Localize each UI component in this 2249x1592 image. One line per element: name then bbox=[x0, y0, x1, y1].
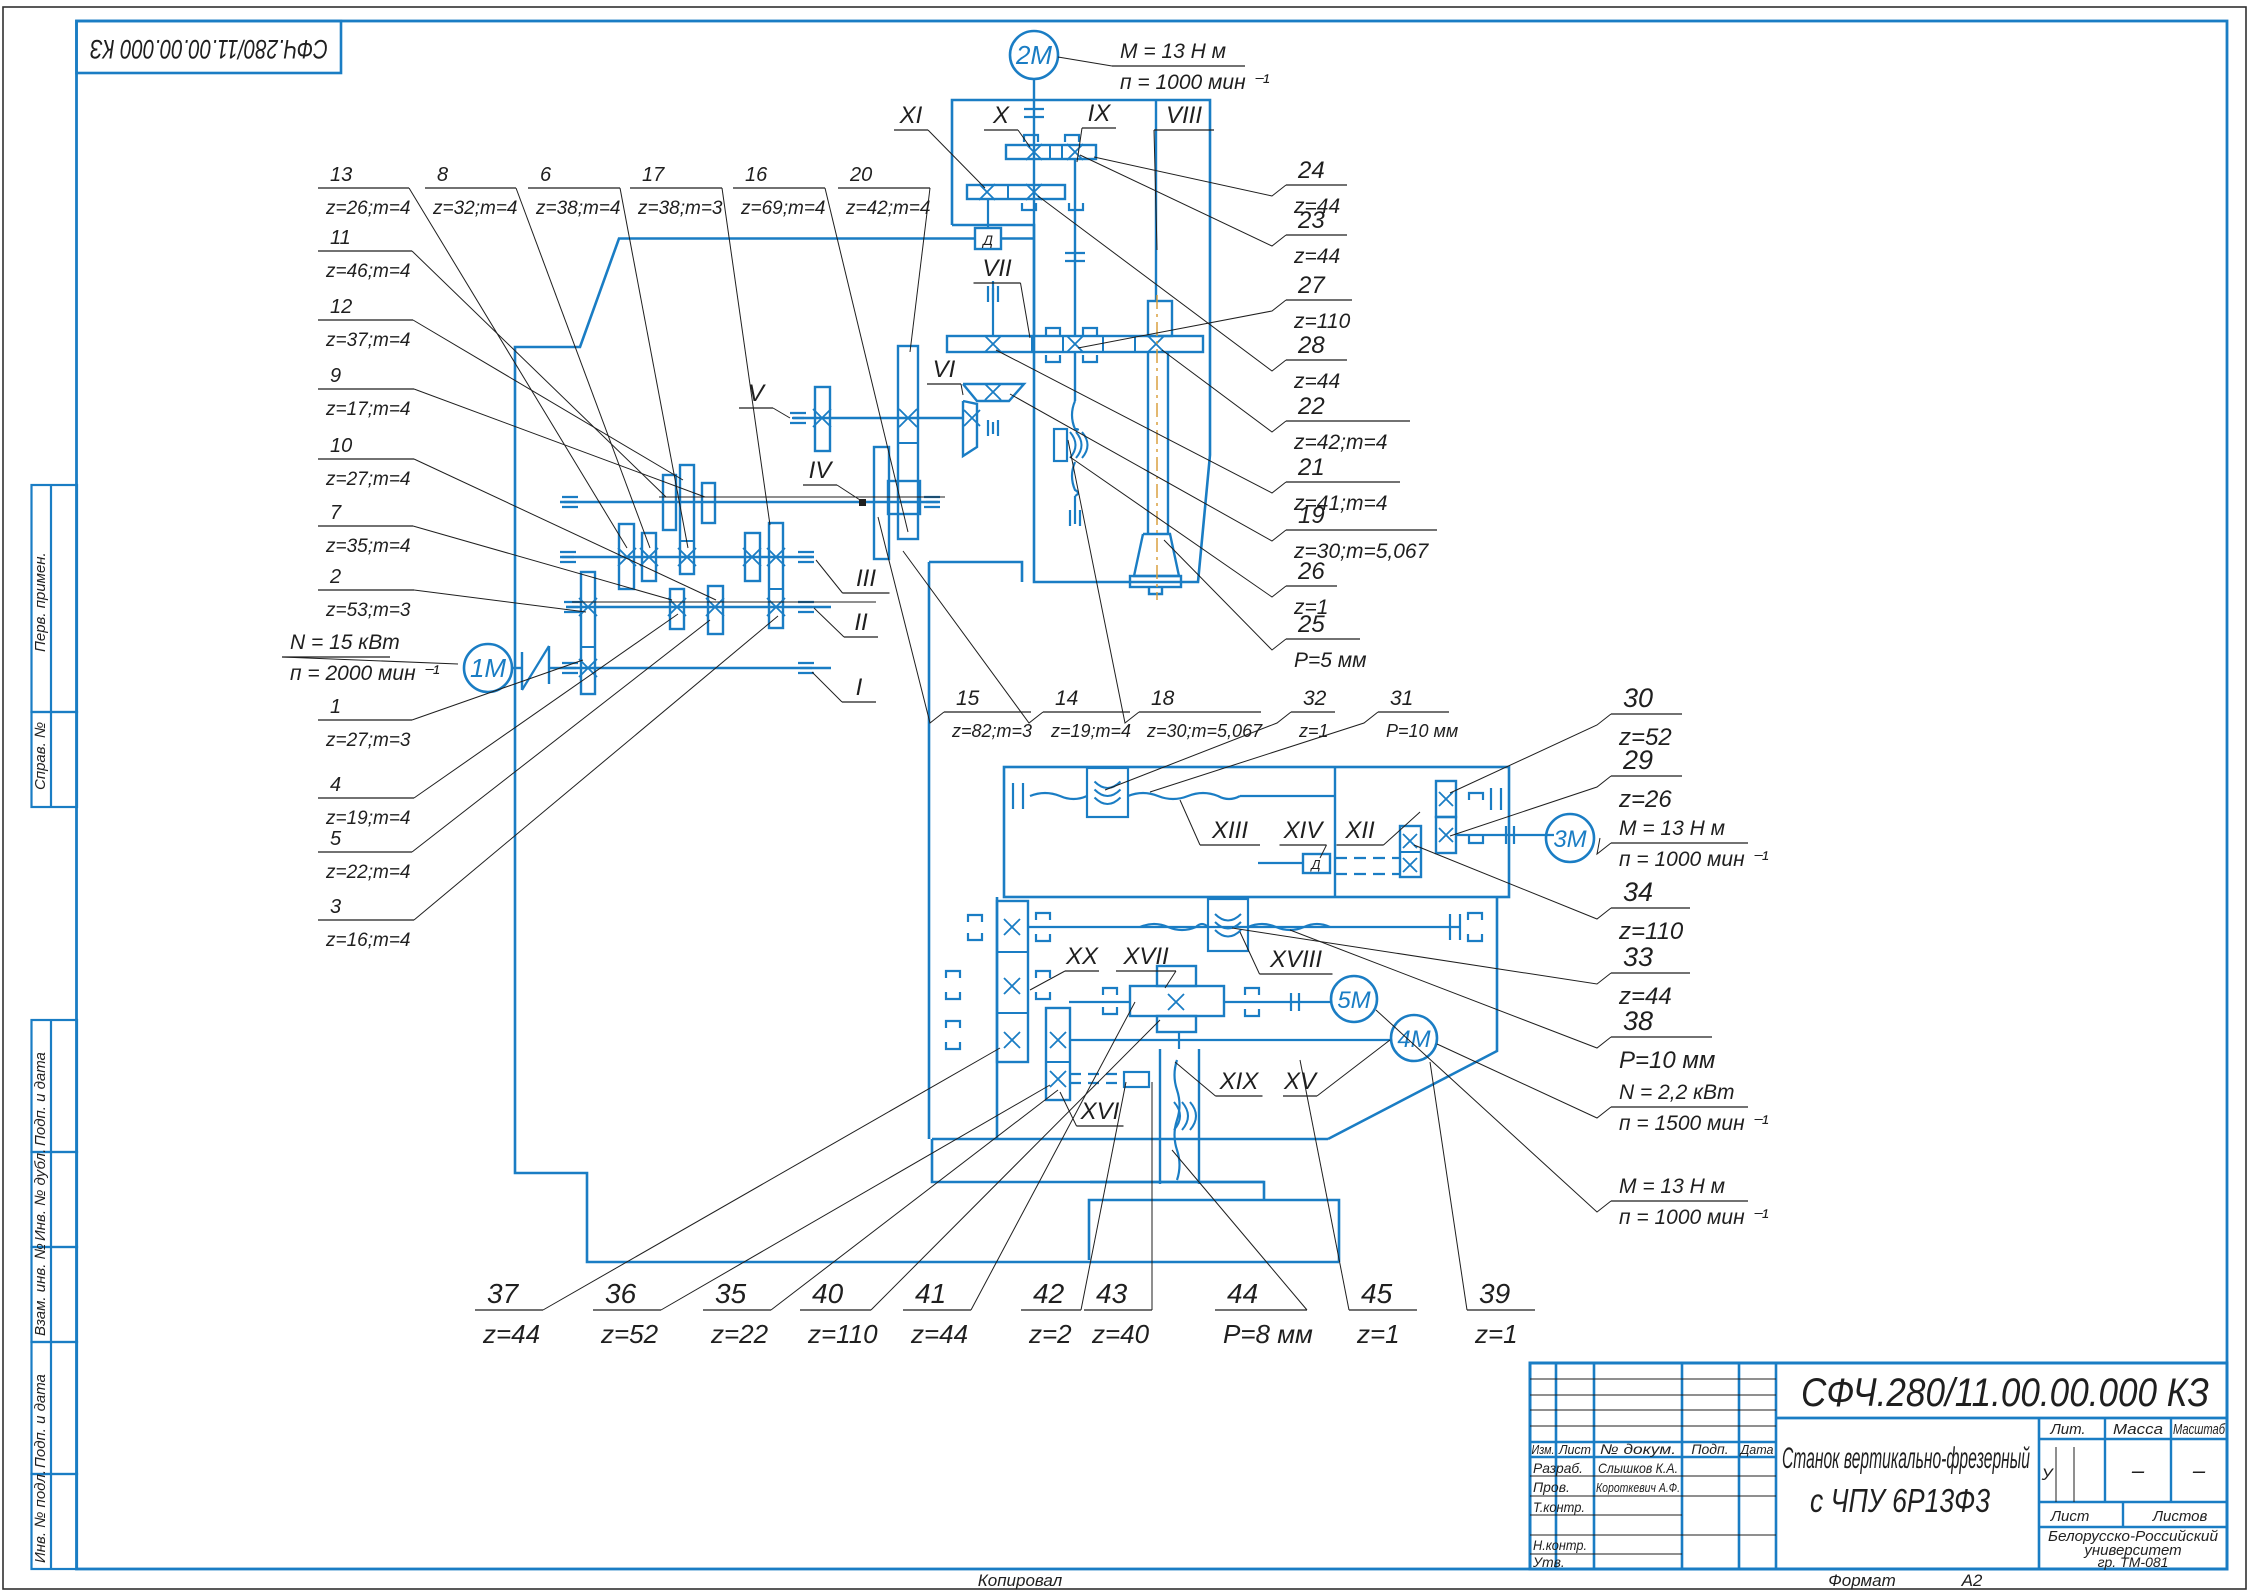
svg-text:z=46;m=4: z=46;m=4 bbox=[325, 261, 411, 282]
svg-text:Справ. №: Справ. № bbox=[32, 722, 49, 790]
shaft XVI label bbox=[1077, 1125, 1124, 1127]
wire: Д box to head bbox=[1001, 237, 1034, 239]
svg-text:п = 1000 мин ⁻¹: п = 1000 мин ⁻¹ bbox=[1619, 1206, 1769, 1229]
svg-text:12: 12 bbox=[330, 296, 352, 318]
shaft XX to 4M bbox=[1070, 1039, 1391, 1041]
VI shaft marks bbox=[988, 420, 998, 436]
spec 2M motor bbox=[1112, 65, 1245, 67]
callout 19: z=30;m=5,067 bbox=[1286, 529, 1437, 531]
vertical screw XIX column bbox=[1159, 1049, 1161, 1184]
callout 39: z=1 bbox=[1467, 1309, 1535, 1311]
svg-text:7: 7 bbox=[330, 502, 342, 524]
svg-text:23: 23 bbox=[1297, 207, 1325, 234]
svg-text:z=82;m=3: z=82;m=3 bbox=[951, 721, 1032, 741]
base bbox=[1089, 1200, 1339, 1262]
side panel: Подп. и дата bbox=[32, 1342, 78, 1474]
callout 34: z=110 bbox=[1611, 907, 1690, 909]
svg-text:35: 35 bbox=[715, 1278, 747, 1309]
svg-text:3М: 3М bbox=[1553, 826, 1586, 853]
svg-text:XIII: XIII bbox=[1211, 817, 1248, 844]
svg-text:25: 25 bbox=[1297, 611, 1325, 638]
gear pair XII bbox=[1436, 781, 1456, 817]
nut on IX bbox=[1054, 429, 1067, 461]
svg-text:z=38;m=4: z=38;m=4 bbox=[535, 198, 621, 219]
callout 31: P=10 мм bbox=[1378, 711, 1449, 713]
gear bar 2 on XI/X bbox=[967, 185, 1065, 199]
knee top bbox=[932, 1138, 1328, 1141]
shaft VII label bbox=[974, 282, 1021, 284]
svg-text:z=1: z=1 bbox=[1474, 1319, 1518, 1349]
shaft II bbox=[566, 606, 831, 608]
callout 5: z=22;m=4 bbox=[318, 851, 412, 853]
dashed couple XIV bbox=[1335, 857, 1400, 859]
svg-text:8: 8 bbox=[437, 164, 448, 186]
callout 45: z=1 bbox=[1349, 1309, 1417, 1311]
svg-text:Н.контр.: Н.контр. bbox=[1533, 1537, 1587, 1553]
svg-text:41: 41 bbox=[915, 1278, 946, 1309]
double gear block on IV-III bbox=[680, 465, 694, 574]
callout 38: P=10 мм bbox=[1611, 1036, 1712, 1038]
svg-text:22: 22 bbox=[1297, 393, 1325, 420]
spec 5M motor bbox=[1611, 1200, 1748, 1202]
svg-text:V: V bbox=[748, 380, 766, 407]
svg-text:30: 30 bbox=[1623, 683, 1653, 713]
spindle centerline bbox=[1156, 295, 1158, 600]
clutch XX bbox=[1036, 971, 1050, 978]
svg-text:XVIII: XVIII bbox=[1269, 946, 1322, 973]
big gear 15 on IV bbox=[874, 447, 889, 559]
gear 13 on III bbox=[619, 524, 634, 589]
spindle sleeve top bbox=[1148, 301, 1172, 336]
shaft XVIII label bbox=[1260, 973, 1333, 975]
svg-text:Изм.: Изм. bbox=[1532, 1442, 1555, 1457]
svg-text:1: 1 bbox=[330, 696, 341, 718]
clutch XII bbox=[1469, 793, 1483, 800]
spindle nose cone bbox=[1134, 534, 1179, 576]
shaft IV label bbox=[803, 484, 837, 486]
gear 6 on III bbox=[745, 533, 760, 581]
svg-text:z=22: z=22 bbox=[710, 1319, 769, 1349]
svg-text:Утв.: Утв. bbox=[1532, 1554, 1565, 1570]
svg-text:2М: 2М bbox=[1015, 40, 1052, 70]
gear on II a bbox=[670, 589, 684, 629]
svg-text:39: 39 bbox=[1479, 1278, 1510, 1309]
shaft IX vertical bbox=[1074, 159, 1076, 336]
svg-text:19: 19 bbox=[1298, 502, 1325, 529]
svg-text:II: II bbox=[854, 609, 868, 636]
callout 28: z=44 bbox=[1286, 359, 1347, 361]
shaft XVII label bbox=[1116, 970, 1176, 972]
svg-text:XIX: XIX bbox=[1219, 1068, 1260, 1095]
svg-text:13: 13 bbox=[330, 164, 352, 186]
svg-text:Подп. и дата: Подп. и дата bbox=[32, 1052, 49, 1146]
svg-text:10: 10 bbox=[330, 435, 352, 457]
side panel: Перв. примен. bbox=[32, 485, 78, 712]
spline shaft IX lower with nut bbox=[1074, 352, 1076, 401]
stamp box (rotated doc number) bbox=[77, 21, 342, 73]
svg-text:z=19;m=4: z=19;m=4 bbox=[325, 808, 411, 829]
ballscrew nut on XV/XVIII bbox=[1208, 899, 1248, 951]
callout 33: z=44 bbox=[1611, 972, 1690, 974]
shaft VIII label bbox=[1154, 129, 1214, 131]
svg-text:№ докум.: № докум. bbox=[1600, 1441, 1676, 1457]
callout 18: z=30;m=5,067 bbox=[1139, 711, 1261, 713]
bearings left of stack bbox=[968, 915, 982, 922]
shaft VIII vertical bbox=[1155, 100, 1157, 301]
callout 40: z=110 bbox=[800, 1309, 871, 1311]
svg-text:P=5 мм: P=5 мм bbox=[1294, 649, 1367, 672]
side panel: Взам. инв. № bbox=[32, 1247, 78, 1342]
shaft XI label bbox=[894, 129, 928, 131]
callout 23: z=44 bbox=[1286, 234, 1347, 236]
svg-text:Копировал: Копировал bbox=[978, 1571, 1063, 1590]
svg-text:М = 13 Н м: М = 13 Н м bbox=[1120, 40, 1226, 63]
svg-text:z=27;m=3: z=27;m=3 bbox=[325, 730, 411, 751]
svg-text:32: 32 bbox=[1303, 687, 1327, 710]
stub shaft above VII bar bbox=[992, 281, 994, 336]
callout 44: P=8 мм bbox=[1215, 1309, 1307, 1311]
svg-text:11: 11 bbox=[330, 227, 351, 249]
callout 43: z=40 bbox=[1084, 1309, 1152, 1311]
svg-text:X: X bbox=[992, 102, 1010, 129]
knee body bbox=[932, 1139, 1264, 1200]
ballscrew nut on XIII bbox=[1087, 768, 1128, 817]
hub on IV bbox=[888, 481, 920, 514]
svg-text:п = 1500 мин ⁻¹: п = 1500 мин ⁻¹ bbox=[1619, 1112, 1769, 1135]
callout 14: z=19;m=4 bbox=[1043, 711, 1130, 713]
svg-text:15: 15 bbox=[956, 687, 980, 710]
svg-text:III: III bbox=[856, 565, 876, 592]
svg-text:СФЧ.280/11.00.00.000 КЗ: СФЧ.280/11.00.00.000 КЗ bbox=[1801, 1371, 2209, 1415]
gear block XVI bbox=[1046, 1008, 1070, 1100]
slip coupling bbox=[521, 652, 523, 690]
svg-text:Лист: Лист bbox=[1558, 1442, 1591, 1457]
svg-text:14: 14 bbox=[1055, 687, 1078, 710]
callout 11: z=46;m=4 bbox=[318, 250, 412, 252]
svg-text:VI: VI bbox=[933, 356, 956, 383]
spec 3M motor bbox=[1611, 842, 1748, 844]
shaft II label bbox=[844, 636, 878, 638]
dashed line XVI bbox=[1070, 1073, 1121, 1075]
side panel: Инв. № дубл. bbox=[32, 1152, 78, 1247]
title block bbox=[1530, 1363, 2227, 1569]
svg-text:z=32;m=4: z=32;m=4 bbox=[432, 198, 518, 219]
svg-text:Слышков К.А.: Слышков К.А. bbox=[1598, 1460, 1678, 1476]
svg-text:N = 15 кВт: N = 15 кВт bbox=[290, 631, 400, 654]
svg-text:СФЧ.280/11.00.00.000 КЗ: СФЧ.280/11.00.00.000 КЗ bbox=[90, 34, 328, 64]
svg-text:Д: Д bbox=[981, 232, 993, 248]
callout 29: z=26 bbox=[1611, 775, 1682, 777]
svg-text:z=42;m=4: z=42;m=4 bbox=[1293, 431, 1387, 454]
shaft I label bbox=[842, 701, 876, 703]
svg-text:Листов: Листов bbox=[2152, 1508, 2208, 1525]
svg-text:Инв. № подл.: Инв. № подл. bbox=[32, 1470, 49, 1563]
motor 3M bbox=[1546, 814, 1594, 862]
svg-text:z=35;m=4: z=35;m=4 bbox=[325, 536, 411, 557]
shaft XV label bbox=[1283, 1095, 1317, 1097]
svg-text:20: 20 bbox=[849, 164, 872, 186]
node on IV bbox=[859, 499, 866, 506]
svg-text:z=44: z=44 bbox=[910, 1319, 968, 1349]
svg-text:Т.контр.: Т.контр. bbox=[1533, 1499, 1585, 1515]
callout 25: P=5 мм bbox=[1286, 638, 1360, 640]
shaft IX label bbox=[1082, 127, 1116, 129]
svg-text:27: 27 bbox=[1297, 272, 1326, 299]
svg-text:z=22;m=4: z=22;m=4 bbox=[325, 862, 411, 883]
svg-text:z=1: z=1 bbox=[1298, 721, 1329, 741]
gear block 1-2 on shafts I-II bbox=[581, 572, 595, 694]
spindle head outline bbox=[952, 100, 1210, 582]
gear on IV right bbox=[702, 483, 715, 523]
svg-text:N = 2,2 кВт: N = 2,2 кВт bbox=[1619, 1081, 1735, 1104]
shaft III label bbox=[843, 592, 890, 594]
callout 10: z=27;m=4 bbox=[318, 458, 414, 460]
ground IX bottom bbox=[1070, 510, 1080, 526]
svg-text:Короткевич А.Ф.: Короткевич А.Ф. bbox=[1596, 1480, 1680, 1495]
motor 4M bbox=[1391, 1015, 1437, 1061]
gear small on V bbox=[815, 387, 830, 451]
shaft X vertical bbox=[1033, 79, 1035, 336]
svg-text:28: 28 bbox=[1297, 332, 1325, 359]
svg-text:P=10 мм: P=10 мм bbox=[1386, 721, 1458, 741]
svg-text:38: 38 bbox=[1623, 1006, 1653, 1036]
shaft X label bbox=[984, 129, 1018, 131]
shaft I bbox=[560, 667, 831, 669]
svg-text:XII: XII bbox=[1344, 817, 1375, 844]
svg-text:29: 29 bbox=[1622, 745, 1653, 775]
svg-text:P=10 мм: P=10 мм bbox=[1619, 1047, 1715, 1074]
svg-text:21: 21 bbox=[1297, 454, 1325, 481]
svg-text:36: 36 bbox=[605, 1278, 637, 1309]
svg-text:Инв. № дубл.: Инв. № дубл. bbox=[32, 1149, 49, 1241]
svg-text:18: 18 bbox=[1151, 687, 1175, 710]
svg-text:37: 37 bbox=[487, 1278, 520, 1309]
svg-text:с ЧПУ 6Р13Ф3: с ЧПУ 6Р13Ф3 bbox=[1810, 1482, 1991, 1519]
svg-text:XX: XX bbox=[1065, 943, 1099, 970]
svg-text:Перв. примен.: Перв. примен. bbox=[32, 552, 49, 652]
svg-text:–: – bbox=[2192, 1458, 2206, 1483]
clutches above/below bars bbox=[1024, 135, 1038, 142]
svg-text:5: 5 bbox=[330, 828, 342, 850]
svg-text:z=19;m=4: z=19;m=4 bbox=[1050, 721, 1131, 741]
svg-text:Масштаб: Масштаб bbox=[2173, 1421, 2225, 1438]
svg-text:Лист: Лист bbox=[2050, 1508, 2090, 1525]
svg-text:4М: 4М bbox=[1397, 1026, 1430, 1053]
callout 13: z=26;m=4 bbox=[318, 187, 409, 189]
svg-text:z=53;m=3: z=53;m=3 bbox=[325, 600, 411, 621]
coupling at left wall XIII bbox=[1013, 783, 1023, 809]
callout 42: z=2 bbox=[1021, 1309, 1081, 1311]
column left edge wire bbox=[929, 562, 1022, 582]
svg-text:Пров.: Пров. bbox=[1533, 1479, 1570, 1495]
side panel: Справ. № bbox=[32, 712, 78, 807]
gear bar VII (long) bbox=[947, 336, 1203, 352]
svg-text:6: 6 bbox=[540, 164, 552, 186]
side panel: Подп. и дата bbox=[32, 1020, 78, 1152]
svg-text:I: I bbox=[856, 674, 863, 701]
callout 8: z=32;m=4 bbox=[425, 187, 516, 189]
svg-text:z=27;m=4: z=27;m=4 bbox=[325, 469, 411, 490]
motor 5M bbox=[1331, 976, 1377, 1022]
bevel gear pair VI bbox=[963, 384, 1024, 401]
svg-text:z=110: z=110 bbox=[1618, 918, 1684, 945]
callout 24: z=44 bbox=[1286, 184, 1347, 186]
callout 17: z=38;m=3 bbox=[630, 187, 722, 189]
coupling on IX mid bbox=[1074, 164, 1076, 166]
shaft to 3M bbox=[1456, 834, 1554, 836]
svg-text:33: 33 bbox=[1623, 942, 1653, 972]
saddle bbox=[1090, 1181, 1264, 1184]
svg-text:34: 34 bbox=[1623, 877, 1653, 907]
svg-text:Разраб.: Разраб. bbox=[1533, 1460, 1583, 1476]
callout 32: z=1 bbox=[1291, 711, 1335, 713]
svg-text:Подп.: Подп. bbox=[1691, 1441, 1728, 1457]
motor 2M bbox=[1010, 31, 1058, 79]
spec 1M motor bbox=[282, 656, 390, 658]
svg-text:Лит.: Лит. bbox=[2049, 1421, 2085, 1438]
callout 4: z=19;m=4 bbox=[318, 797, 414, 799]
callout 2: z=53;m=3 bbox=[318, 589, 414, 591]
svg-text:16: 16 bbox=[745, 164, 768, 186]
svg-text:24: 24 bbox=[1297, 157, 1325, 184]
spec 4M motor bbox=[1611, 1106, 1748, 1108]
svg-text:п = 1000 мин ⁻¹: п = 1000 мин ⁻¹ bbox=[1120, 71, 1270, 94]
svg-text:40: 40 bbox=[812, 1278, 844, 1309]
svg-text:z=110: z=110 bbox=[1293, 310, 1351, 333]
sensor Д2 bbox=[1303, 854, 1330, 873]
svg-text:z=26: z=26 bbox=[1618, 786, 1672, 813]
callout 27: z=110 bbox=[1286, 299, 1352, 301]
callout 6: z=38;m=4 bbox=[528, 187, 620, 189]
svg-text:Станок вертикально-фрезерный: Станок вертикально-фрезерный bbox=[1782, 1442, 2030, 1475]
gear on IV left bbox=[663, 475, 676, 530]
svg-text:1М: 1М bbox=[470, 653, 506, 683]
svg-text:VII: VII bbox=[982, 255, 1012, 282]
svg-text:3: 3 bbox=[330, 896, 341, 918]
svg-text:45: 45 bbox=[1361, 1278, 1393, 1309]
gear block on XIV bbox=[1400, 826, 1421, 877]
callout 15: z=82;m=3 bbox=[944, 711, 1031, 713]
callout 30: z=52 bbox=[1611, 713, 1682, 715]
svg-text:XVI: XVI bbox=[1080, 1098, 1120, 1125]
callout 22: z=42;m=4 bbox=[1286, 420, 1410, 422]
callout 35: z=22 bbox=[703, 1309, 771, 1311]
machine body contour bbox=[515, 239, 1339, 1263]
gear on II b bbox=[708, 586, 723, 634]
shaft XIX label bbox=[1216, 1095, 1263, 1097]
shaft IV bbox=[560, 501, 940, 503]
svg-text:Масса: Масса bbox=[2113, 1421, 2163, 1438]
black axis line through IV cluster bbox=[659, 496, 945, 498]
callout 12: z=37;m=4 bbox=[318, 319, 413, 321]
svg-text:5М: 5М bbox=[1337, 987, 1370, 1014]
svg-text:z=40: z=40 bbox=[1091, 1319, 1150, 1349]
svg-text:IX: IX bbox=[1088, 100, 1112, 127]
right bearings XV bbox=[1450, 914, 1460, 940]
svg-text:z=38;m=3: z=38;m=3 bbox=[637, 198, 723, 219]
svg-text:z=52: z=52 bbox=[600, 1319, 659, 1349]
svg-text:44: 44 bbox=[1227, 1278, 1258, 1309]
callout 1: z=27;m=3 bbox=[318, 719, 412, 721]
svg-text:п = 1000 мин ⁻¹: п = 1000 мин ⁻¹ bbox=[1619, 848, 1769, 871]
svg-text:z=110: z=110 bbox=[807, 1319, 878, 1349]
svg-text:31: 31 bbox=[1390, 687, 1413, 710]
svg-text:М = 13 Н м: М = 13 Н м bbox=[1619, 817, 1725, 840]
shaft XIII label bbox=[1200, 844, 1260, 846]
shaft VI label bbox=[927, 383, 961, 385]
shaft XV bbox=[1028, 926, 1460, 928]
svg-text:Формат: Формат bbox=[1828, 1571, 1896, 1590]
svg-text:XI: XI bbox=[899, 102, 923, 129]
svg-text:z=42;m=4: z=42;m=4 bbox=[845, 198, 931, 219]
svg-text:z=2: z=2 bbox=[1028, 1319, 1072, 1349]
leadscrew XIII bbox=[1030, 793, 1087, 799]
side panel: Инв. № подл. bbox=[32, 1474, 78, 1569]
svg-text:z=44: z=44 bbox=[1293, 370, 1340, 393]
svg-text:–: – bbox=[2131, 1458, 2145, 1483]
svg-text:z=44: z=44 bbox=[482, 1319, 540, 1349]
gear bar top on X/IX bbox=[1006, 145, 1096, 159]
shaft V label bbox=[739, 407, 773, 409]
svg-text:4: 4 bbox=[330, 774, 341, 796]
callout 26: z=1 bbox=[1286, 585, 1337, 587]
svg-text:А2: А2 bbox=[1961, 1571, 1983, 1590]
shaft XIV label bbox=[1280, 844, 1327, 846]
svg-text:z=26;m=4: z=26;m=4 bbox=[325, 198, 411, 219]
callout 37: z=44 bbox=[475, 1309, 543, 1311]
gear 16/20 tall block on V bbox=[898, 346, 918, 539]
svg-text:z=17;m=4: z=17;m=4 bbox=[325, 399, 411, 420]
callout 3: z=16;m=4 bbox=[318, 919, 414, 921]
svg-text:z=30;m=5,067: z=30;m=5,067 bbox=[1146, 721, 1263, 741]
sensor Д on XI bbox=[987, 199, 989, 228]
shaft XII label bbox=[1337, 844, 1384, 846]
VII bar clutches bbox=[1046, 328, 1060, 335]
tall gear block III-II bbox=[769, 523, 783, 628]
callout 7: z=35;m=4 bbox=[318, 525, 413, 527]
callout 16: z=69;m=4 bbox=[733, 187, 825, 189]
shaft XVII to 5M bbox=[1224, 1001, 1331, 1003]
svg-text:2: 2 bbox=[329, 566, 341, 588]
svg-text:z=37;m=4: z=37;m=4 bbox=[325, 330, 411, 351]
lower feed box bbox=[996, 897, 999, 1139]
svg-text:IV: IV bbox=[809, 457, 834, 484]
svg-text:М = 13 Н м: М = 13 Н м bbox=[1619, 1175, 1725, 1198]
svg-text:z=16;m=4: z=16;m=4 bbox=[325, 930, 411, 951]
svg-text:z=69;m=4: z=69;m=4 bbox=[740, 198, 826, 219]
gear 8 on III bbox=[642, 533, 656, 581]
spindle quill bbox=[1147, 352, 1149, 534]
svg-text:17: 17 bbox=[642, 164, 665, 186]
svg-text:XIV: XIV bbox=[1283, 817, 1325, 844]
cross gear XVII bbox=[1130, 986, 1224, 1016]
feed gearbox upper body bbox=[1004, 767, 1509, 897]
callout 20: z=42;m=4 bbox=[838, 187, 930, 189]
gear stack left bbox=[997, 901, 1028, 1062]
svg-text:VIII: VIII bbox=[1166, 102, 1202, 129]
callout 21: z=41;m=4 bbox=[1286, 481, 1400, 483]
svg-text:п = 2000 мин ⁻¹: п = 2000 мин ⁻¹ bbox=[290, 662, 440, 685]
svg-text:z=1: z=1 bbox=[1356, 1319, 1400, 1349]
svg-text:9: 9 bbox=[330, 365, 341, 387]
shaft III bbox=[560, 556, 814, 558]
callout 9: z=17;m=4 bbox=[318, 388, 414, 390]
svg-text:Подп. и дата: Подп. и дата bbox=[32, 1374, 49, 1468]
svg-text:Д: Д bbox=[1309, 857, 1320, 872]
nut on XIX bbox=[1174, 1102, 1180, 1130]
motor 1M bbox=[464, 644, 512, 692]
svg-text:26: 26 bbox=[1297, 558, 1325, 585]
